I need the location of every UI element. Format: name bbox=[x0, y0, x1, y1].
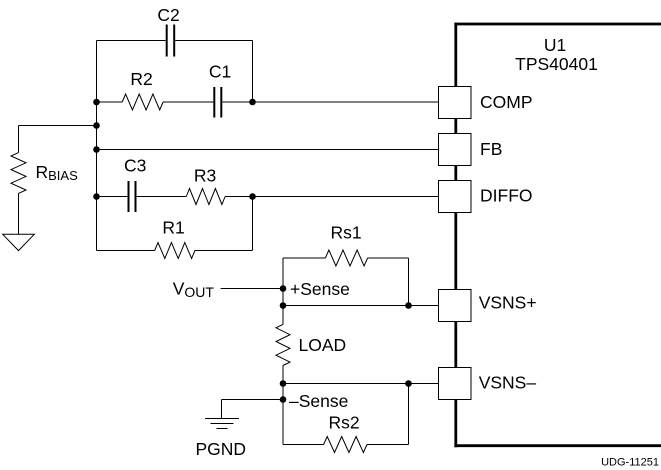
pin DIFFO terminal box bbox=[439, 181, 472, 213]
wire FB to pin bbox=[97, 149, 439, 151]
wire R1 vertical to DIFFO node bbox=[252, 197, 254, 251]
resistor Rs1 bbox=[325, 250, 367, 266]
capacitor C2 bbox=[167, 25, 175, 57]
node junction Rs1 / VSNS+ bbox=[405, 302, 412, 309]
wire C2 top right bbox=[175, 40, 252, 42]
node +Sense junction bbox=[280, 285, 287, 292]
node junction sense bus / VSNS+ bbox=[280, 302, 287, 309]
svg-text:R3: R3 bbox=[194, 166, 216, 186]
op-amp U1 chip outline (TPS40401) bbox=[454, 23, 661, 448]
wire DIFFO right segment to pin bbox=[225, 196, 438, 198]
svg-text:VSNS–: VSNS– bbox=[479, 373, 537, 393]
svg-text:LOAD: LOAD bbox=[299, 335, 347, 355]
pin VSNS+ terminal box bbox=[439, 290, 472, 322]
resistor R1 bbox=[155, 243, 195, 259]
wire sense bus vertical upper bbox=[282, 258, 284, 324]
resistor R3 bbox=[186, 189, 225, 205]
wire R1 left segment bbox=[97, 250, 155, 252]
resistor LOAD bbox=[276, 324, 290, 365]
wire C2 top left bbox=[97, 40, 166, 42]
svg-text:–Sense: –Sense bbox=[289, 391, 348, 411]
wire VOUT lead bbox=[221, 288, 283, 290]
svg-text:C3: C3 bbox=[124, 156, 146, 176]
pin COMP terminal box bbox=[439, 87, 472, 119]
wire Rs1 right vertical bbox=[408, 258, 410, 306]
wire main left bus vertical bbox=[96, 41, 98, 251]
pin FB terminal box bbox=[439, 134, 472, 166]
wire Rs2 bottom right segment bbox=[367, 444, 409, 446]
wire RBIAS horizontal bbox=[19, 125, 97, 127]
wire VSNS+ to pin bbox=[283, 305, 439, 307]
svg-text:R1: R1 bbox=[162, 218, 184, 238]
node junction sense bus / VSNS- bbox=[280, 380, 287, 387]
capacitor C1 bbox=[214, 87, 221, 118]
node -Sense junction bbox=[280, 396, 287, 403]
wire RBIAS vertical lower bbox=[18, 193, 20, 234]
resistor R2 bbox=[122, 94, 163, 110]
wire PGND stub bbox=[221, 400, 223, 419]
resistor RBIAS bbox=[11, 153, 26, 194]
wire COMP left segment bbox=[97, 101, 123, 103]
wire sense bus vertical lower bbox=[282, 366, 284, 445]
svg-text:Rs2: Rs2 bbox=[328, 413, 359, 433]
capacitor C3 bbox=[129, 181, 136, 212]
wire Rs1 top right segment bbox=[368, 257, 409, 259]
svg-text:R2: R2 bbox=[130, 69, 152, 89]
svg-text:+Sense: +Sense bbox=[290, 279, 350, 299]
ground PGND earth symbol bbox=[205, 419, 239, 429]
wire DIFFO middle segment bbox=[137, 196, 187, 198]
svg-text:PGND: PGND bbox=[196, 439, 247, 459]
wire R1 right segment bbox=[195, 250, 253, 252]
node junction bus / DIFFO bbox=[93, 193, 100, 200]
wire Rs1 top left segment bbox=[283, 257, 325, 259]
svg-text:U1: U1 bbox=[544, 35, 566, 55]
node junction bus / FB bbox=[93, 146, 100, 153]
wire PGND horizontal bbox=[222, 399, 284, 401]
svg-text:FB: FB bbox=[480, 139, 502, 159]
svg-text:TPS40401: TPS40401 bbox=[515, 54, 598, 74]
node junction left bus / COMP bbox=[93, 99, 100, 106]
pin VSNS- terminal box bbox=[439, 368, 472, 400]
node junction R3-R1 / DIFFO bbox=[249, 193, 256, 200]
wire DIFFO left segment bbox=[97, 196, 128, 198]
svg-text:RBIAS: RBIAS bbox=[36, 162, 79, 183]
wire VSNS- to pin bbox=[283, 383, 439, 385]
wire Rs2 right vertical bbox=[408, 384, 410, 445]
wire C2 right vertical bbox=[252, 41, 254, 103]
wire Rs2 bottom left segment bbox=[283, 444, 324, 446]
wire COMP right segment to pin bbox=[222, 101, 438, 103]
ground (RBIAS analog ground triangle) bbox=[3, 234, 35, 250]
svg-text:C1: C1 bbox=[209, 62, 231, 82]
node junction bus / RBIAS bbox=[93, 122, 100, 129]
svg-text:COMP: COMP bbox=[480, 92, 533, 112]
svg-text:DIFFO: DIFFO bbox=[480, 186, 533, 206]
node junction Rs2 / VSNS- bbox=[405, 380, 412, 387]
svg-text:UDG-11251: UDG-11251 bbox=[601, 457, 659, 469]
wire RBIAS vertical upper bbox=[18, 126, 20, 153]
svg-text:C2: C2 bbox=[157, 5, 179, 25]
resistor Rs2 bbox=[324, 437, 367, 453]
node junction C2-C1 / COMP bbox=[249, 99, 256, 106]
svg-text:VOUT: VOUT bbox=[173, 279, 215, 301]
svg-text:VSNS+: VSNS+ bbox=[479, 293, 537, 313]
wire COMP middle segment bbox=[163, 101, 213, 103]
svg-text:Rs1: Rs1 bbox=[330, 223, 361, 243]
